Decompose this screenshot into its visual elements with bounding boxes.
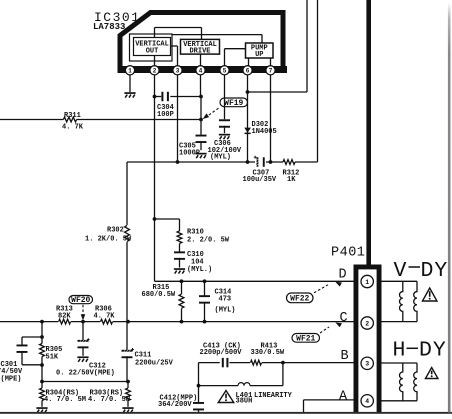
svg-text:OUT: OUT — [146, 48, 159, 56]
wire — [199, 363, 283, 386]
wire — [248, 58, 250, 67]
svg-text:2. 2/0. 5W: 2. 2/0. 5W — [187, 237, 230, 245]
label 2200u/25V — [135, 359, 174, 367]
capacitor C314 — [199, 295, 210, 303]
ground — [174, 268, 185, 273]
resistor R305 — [40, 344, 45, 357]
pin 1 P401 — [361, 275, 373, 287]
wire — [129, 75, 131, 92]
svg-text:4. 7K: 4. 7K — [94, 312, 116, 320]
wire — [177, 75, 179, 162]
label C304 — [157, 104, 174, 112]
svg-text:38UH: 38UH — [236, 398, 253, 406]
resistor R313 — [59, 319, 71, 324]
svg-text:DY: DY — [419, 339, 447, 363]
svg-text:B: B — [341, 349, 349, 364]
svg-text:UP: UP — [255, 51, 263, 59]
wire — [208, 108, 219, 116]
pin 4 IC301 — [196, 66, 205, 75]
label C412(MPP) — [160, 394, 198, 402]
svg-text:C311: C311 — [135, 352, 152, 360]
warning triangle — [422, 288, 437, 301]
label 4.7/0.5W — [88, 396, 131, 404]
label 1N4005 — [252, 128, 277, 136]
wire — [200, 54, 202, 67]
wire — [82, 305, 84, 315]
label 51K — [46, 353, 59, 361]
label P401 — [331, 245, 365, 260]
node A — [339, 389, 348, 404]
wire — [199, 362, 354, 364]
label C312 — [89, 362, 106, 370]
wire — [127, 382, 129, 407]
block VERTICAL OUT — [130, 34, 173, 61]
node C — [340, 311, 348, 326]
wire — [198, 363, 200, 403]
wire — [225, 49, 246, 66]
label (MYL.) — [187, 266, 212, 274]
node junction — [153, 217, 157, 221]
node junction — [81, 320, 85, 324]
svg-text:A: A — [339, 389, 348, 404]
inductor L401 — [238, 383, 250, 386]
wire — [181, 281, 183, 321]
svg-text:1. 2K/0. 5W: 1. 2K/0. 5W — [85, 235, 132, 243]
net label WF22 — [287, 293, 314, 303]
wire — [154, 56, 156, 68]
warning triangle — [218, 391, 234, 403]
svg-text:74/50V: 74/50V — [0, 368, 23, 376]
wire — [82, 346, 84, 355]
label 74/50V — [0, 368, 23, 376]
inductor H-DY left coil — [399, 363, 402, 401]
wire — [172, 35, 262, 43]
wire — [0, 321, 354, 323]
inductor V-DY right coil — [414, 281, 417, 321]
wire — [314, 285, 328, 293]
block VERTICAL DRIVE — [181, 39, 220, 55]
warning triangle — [425, 368, 438, 379]
wire — [320, 327, 329, 333]
pin 6 IC301 — [243, 66, 252, 75]
node junction — [203, 320, 207, 324]
node junction — [126, 380, 130, 384]
arrowhead — [335, 282, 342, 287]
wire — [382, 400, 418, 402]
label R311 — [64, 112, 81, 120]
label (MYL) — [210, 154, 231, 162]
node junction — [203, 279, 207, 283]
label R306 — [95, 306, 112, 314]
label C310 — [187, 251, 204, 259]
wire — [382, 362, 418, 364]
svg-text:LINEARITY: LINEARITY — [254, 392, 293, 400]
wire — [126, 162, 128, 350]
svg-text:4. 7K: 4. 7K — [62, 123, 84, 131]
svg-text:R310: R310 — [187, 229, 204, 237]
svg-text:100u/35V: 100u/35V — [243, 176, 277, 184]
resistor R306 — [101, 319, 113, 324]
label R313 — [56, 306, 73, 314]
arrowhead — [81, 314, 86, 320]
wire — [126, 356, 128, 381]
arrowhead — [203, 113, 209, 119]
label 2.2/0.5W — [187, 237, 230, 245]
svg-text:4. 7/0. 5M: 4. 7/0. 5M — [44, 396, 86, 404]
label 100P — [157, 111, 174, 119]
label C306 — [214, 140, 231, 148]
net label WF21 — [292, 334, 320, 344]
label 102/100V — [208, 147, 242, 155]
resistor R310 — [177, 231, 182, 243]
capacitor C311 — [122, 348, 135, 358]
svg-text:82K: 82K — [58, 312, 71, 320]
label C311 — [135, 352, 152, 360]
svg-text:1N4005: 1N4005 — [252, 128, 277, 136]
svg-text:4: 4 — [365, 398, 369, 405]
svg-text:1: 1 — [365, 279, 369, 286]
svg-text:5: 5 — [223, 68, 227, 75]
svg-text:R311: R311 — [64, 112, 81, 120]
label 1000P — [179, 149, 200, 157]
label R304(RS) — [46, 390, 80, 398]
label C314 — [215, 289, 232, 297]
svg-text:R302: R302 — [107, 227, 124, 235]
label C307 — [253, 170, 270, 178]
pin 3 IC301 — [173, 66, 182, 75]
capacitor C307 — [254, 156, 265, 167]
ground — [36, 407, 47, 412]
wire — [270, 75, 272, 162]
svg-text:WF19: WF19 — [224, 99, 243, 108]
pin 2 P401 — [361, 317, 373, 329]
wire — [42, 381, 128, 383]
resistor R303 — [126, 388, 131, 400]
wire — [448, 2, 451, 413]
label (MYL) — [215, 306, 236, 314]
svg-text:DY: DY — [421, 259, 449, 283]
svg-text:(MYL): (MYL) — [215, 306, 236, 314]
node junction — [40, 380, 44, 384]
svg-text:WF21: WF21 — [296, 334, 315, 343]
label R310 — [187, 229, 204, 237]
svg-text:H: H — [393, 339, 406, 363]
wire — [179, 258, 181, 268]
node junction — [197, 384, 201, 388]
svg-text:2200p/500V: 2200p/500V — [200, 349, 243, 357]
pin 1 IC301 — [125, 66, 134, 75]
op-amp U-IC301 outline — [118, 13, 288, 74]
label IC301 — [94, 10, 141, 25]
svg-text:0. 22/50V(MPE): 0. 22/50V(MPE) — [56, 369, 115, 377]
wire — [155, 280, 354, 282]
wire — [224, 126, 226, 133]
wire — [247, 75, 249, 162]
wire — [0, 412, 452, 414]
pin 3 P401 — [361, 357, 373, 369]
svg-text:330/0.5W: 330/0.5W — [251, 349, 285, 357]
label 680/0.5W — [142, 291, 176, 299]
label 4.7K — [94, 312, 116, 320]
wire — [155, 219, 180, 252]
resistor R302 — [125, 226, 130, 242]
label 4.7K — [62, 123, 84, 131]
node junction — [126, 320, 130, 324]
label (MPE) — [1, 376, 22, 384]
arrowhead — [335, 322, 342, 327]
capacitor C304 — [155, 92, 202, 101]
pin 5 IC301 — [220, 66, 229, 75]
svg-text:4. 7/0. 5W: 4. 7/0. 5W — [88, 396, 131, 404]
label 0.22/50V(MPE) — [56, 369, 115, 377]
label C301 — [1, 361, 18, 369]
capacitor C413 — [222, 358, 229, 367]
svg-text:680/0.5W: 680/0.5W — [142, 291, 176, 299]
capacitor C301 — [17, 337, 43, 365]
label R315 — [153, 284, 170, 292]
resistor R315 — [179, 294, 184, 308]
wire — [127, 161, 318, 163]
svg-text:51K: 51K — [46, 353, 59, 361]
wire — [155, 28, 202, 40]
svg-text:2200u/25V: 2200u/25V — [135, 359, 174, 367]
wire — [198, 409, 200, 413]
capacitor C310 — [174, 251, 185, 259]
svg-text:2: 2 — [153, 68, 157, 75]
label 473 — [219, 295, 232, 303]
capacitor C305 — [196, 135, 207, 143]
svg-text:WF20: WF20 — [71, 296, 90, 305]
label 104 — [191, 259, 204, 267]
label D302 — [252, 121, 269, 129]
svg-text:3: 3 — [176, 68, 180, 75]
label C305 — [179, 143, 196, 151]
connector P401 body — [354, 265, 382, 413]
svg-text:D: D — [339, 268, 347, 283]
node junction — [246, 160, 250, 164]
label C413 (CK) — [203, 343, 241, 351]
pin 7 IC301 — [266, 66, 275, 75]
wire — [382, 280, 418, 282]
wire — [224, 75, 226, 119]
svg-text:4: 4 — [199, 68, 203, 75]
label L401 — [236, 392, 253, 400]
wire — [154, 75, 156, 281]
node junction — [40, 320, 44, 324]
svg-text:LA7833: LA7833 — [93, 22, 125, 32]
node junction — [199, 95, 203, 99]
svg-text:V: V — [394, 259, 407, 283]
node junction — [40, 335, 44, 339]
label R303(RS) — [90, 390, 124, 398]
label 330/0.5W — [251, 349, 285, 357]
wire — [200, 75, 203, 135]
ground — [122, 407, 133, 412]
wire — [382, 321, 418, 323]
label 100u/35V — [243, 176, 277, 184]
label LA7833 — [93, 22, 125, 32]
label LINEARITY — [254, 392, 293, 400]
inductor V-DY left coil — [399, 281, 402, 321]
svg-text:P401: P401 — [331, 245, 365, 260]
wire — [200, 141, 202, 150]
block PUMP UP — [246, 43, 274, 59]
node B — [341, 349, 349, 364]
svg-text:100P: 100P — [157, 111, 174, 119]
wire — [270, 58, 272, 67]
label 82K — [58, 312, 71, 320]
wire bus — [366, 0, 371, 266]
svg-text:364/200V: 364/200V — [158, 401, 192, 409]
resistor R413 — [251, 360, 262, 365]
label 1.2K/0.5W — [85, 235, 132, 243]
wire — [304, 400, 354, 413]
wire — [248, 0, 308, 92]
svg-text:7: 7 — [269, 68, 273, 75]
label H-DY — [393, 339, 447, 363]
resistor R312 — [283, 160, 295, 165]
capacitor C312 — [78, 338, 90, 348]
node junction — [246, 90, 250, 94]
ground — [195, 153, 206, 158]
svg-text:1: 1 — [128, 68, 132, 75]
label 1K — [287, 176, 296, 184]
label R302 — [107, 227, 124, 235]
label 38UH — [236, 398, 253, 406]
svg-text:(MPE): (MPE) — [1, 376, 22, 384]
resistor R311 — [63, 117, 76, 122]
ground — [77, 356, 88, 361]
pin 2 IC301 — [150, 66, 159, 75]
label 364/200V — [158, 401, 192, 409]
node junction — [176, 160, 180, 164]
capacitor C306 — [219, 119, 230, 127]
wire — [317, 0, 319, 162]
wire — [204, 281, 206, 321]
svg-text:6: 6 — [246, 68, 250, 75]
pin 4 P401 — [361, 395, 373, 407]
ground — [124, 92, 135, 97]
node junction — [180, 320, 184, 324]
node junction — [153, 95, 157, 99]
svg-text:(MYL): (MYL) — [210, 154, 231, 162]
resistor R304 — [40, 388, 45, 400]
node junction — [40, 363, 44, 367]
node D — [339, 268, 347, 283]
label 2200p/500V — [200, 349, 243, 357]
node junction — [281, 361, 285, 365]
svg-text:1000P: 1000P — [179, 149, 200, 157]
label R305 — [46, 346, 63, 354]
label 4.7/0.5M — [44, 396, 86, 404]
inductor H-DY right coil — [414, 363, 417, 401]
label R413 — [261, 343, 278, 351]
svg-text:2: 2 — [365, 320, 369, 327]
net label WF19 — [220, 98, 248, 108]
diode D302 — [244, 128, 251, 135]
wire — [0, 119, 201, 121]
label R312 — [283, 170, 300, 178]
node junction — [180, 279, 184, 283]
label V-DY — [394, 259, 449, 283]
net label WF20 — [69, 296, 93, 306]
wire — [82, 322, 84, 341]
wire — [41, 322, 43, 407]
node junction — [199, 118, 203, 122]
node junction — [269, 160, 273, 164]
svg-text:1K: 1K — [287, 176, 296, 184]
svg-text:473: 473 — [219, 295, 232, 303]
svg-text:(MYL.): (MYL.) — [187, 266, 212, 274]
ground — [219, 134, 230, 139]
svg-text:WF22: WF22 — [290, 294, 309, 303]
wire — [171, 46, 178, 67]
capacitor C412 — [193, 402, 204, 410]
svg-text:3: 3 — [365, 361, 369, 368]
